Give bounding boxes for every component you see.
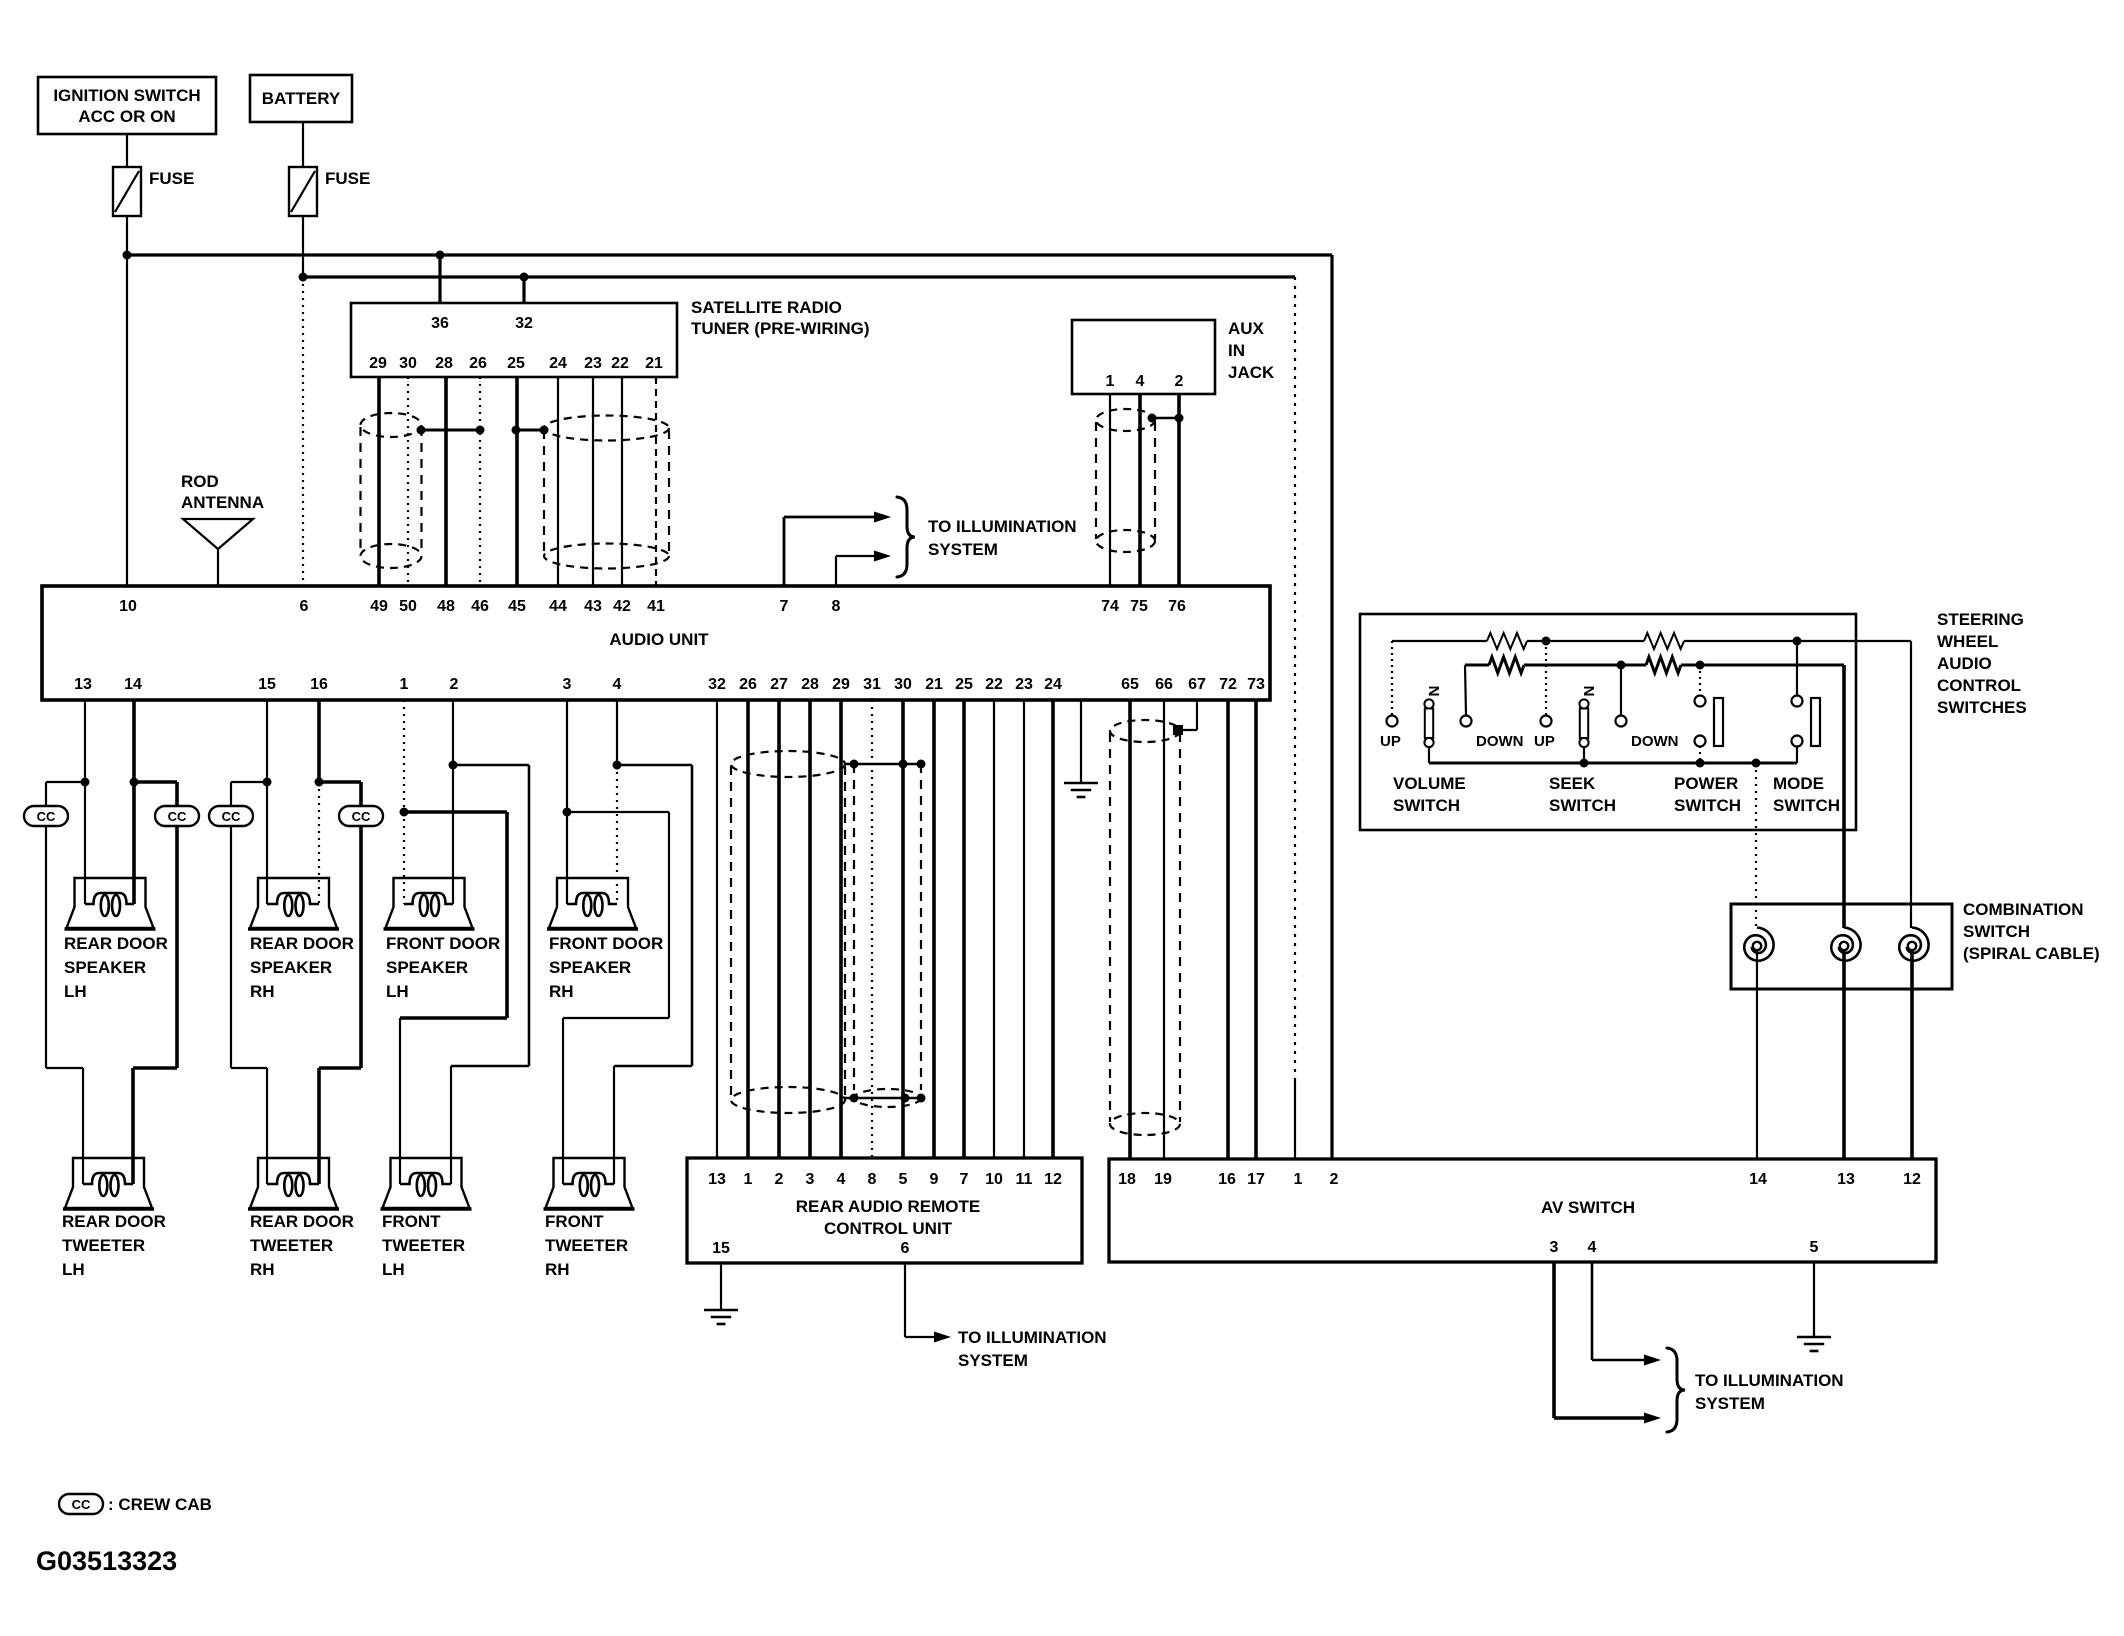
svg-text:1: 1 [400,676,409,693]
svg-text:FUSE: FUSE [149,169,194,188]
svg-text:ROD: ROD [181,472,219,491]
svg-text:15: 15 [712,1240,730,1257]
svg-text:MODE: MODE [1773,774,1824,793]
svg-text:24: 24 [1044,676,1062,693]
svg-text:SEEK: SEEK [1549,774,1596,793]
svg-text:CC: CC [168,809,187,824]
svg-text:RH: RH [545,1260,570,1279]
svg-text:AUDIO: AUDIO [1937,654,1992,673]
svg-text:48: 48 [437,598,455,615]
svg-text:CONTROL: CONTROL [1937,676,2021,695]
svg-text:FRONT DOOR: FRONT DOOR [386,934,500,953]
svg-text:SYSTEM: SYSTEM [958,1351,1028,1370]
svg-text:SPEAKER: SPEAKER [549,958,631,977]
svg-text:36: 36 [431,315,449,332]
svg-text:46: 46 [471,598,489,615]
svg-text:22: 22 [611,355,629,372]
svg-text:RH: RH [250,982,275,1001]
svg-text:44: 44 [549,598,567,615]
svg-text:27: 27 [770,676,788,693]
svg-text:17: 17 [1247,1171,1265,1188]
svg-text:22: 22 [985,676,1003,693]
svg-text:SPEAKER: SPEAKER [386,958,468,977]
svg-text:42: 42 [613,598,631,615]
svg-text:ANTENNA: ANTENNA [181,493,264,512]
svg-text:TWEETER: TWEETER [250,1236,333,1255]
svg-text:CC: CC [72,1497,91,1512]
svg-text:45: 45 [508,598,526,615]
svg-text:3: 3 [563,676,572,693]
svg-text:13: 13 [74,676,92,693]
svg-text:76: 76 [1168,598,1186,615]
svg-text:REAR DOOR: REAR DOOR [62,1212,166,1231]
svg-text:15: 15 [258,676,276,693]
svg-text:10: 10 [119,598,137,615]
svg-text:DOWN: DOWN [1631,733,1679,750]
svg-text:2: 2 [1175,373,1184,390]
svg-text:31: 31 [863,676,881,693]
svg-text:29: 29 [369,355,387,372]
svg-text:14: 14 [1749,1171,1767,1188]
svg-text:1: 1 [1294,1171,1303,1188]
svg-text:21: 21 [645,355,663,372]
svg-text:SATELLITE RADIO: SATELLITE RADIO [691,298,842,317]
svg-text:RH: RH [549,982,574,1001]
svg-text:1: 1 [1106,373,1115,390]
svg-text:11: 11 [1016,1171,1033,1188]
svg-text:BATTERY: BATTERY [262,89,341,108]
svg-text:43: 43 [584,598,602,615]
svg-text:CC: CC [37,809,56,824]
svg-text:32: 32 [708,676,726,693]
svg-text:13: 13 [1837,1171,1855,1188]
svg-text:18: 18 [1118,1171,1136,1188]
svg-text:: CREW CAB: : CREW CAB [108,1495,212,1514]
svg-text:29: 29 [832,676,850,693]
svg-text:TO ILLUMINATION: TO ILLUMINATION [958,1328,1107,1347]
svg-text:ACC OR ON: ACC OR ON [78,107,175,126]
svg-text:21: 21 [925,676,943,693]
svg-text:49: 49 [370,598,388,615]
svg-text:SWITCH: SWITCH [1963,922,2030,941]
svg-text:4: 4 [1588,1239,1597,1256]
svg-text:12: 12 [1044,1171,1062,1188]
svg-text:26: 26 [739,676,757,693]
svg-text:AUX: AUX [1228,319,1265,338]
svg-text:CC: CC [352,809,371,824]
svg-text:25: 25 [955,676,973,693]
svg-text:LH: LH [64,982,87,1001]
svg-text:65: 65 [1121,676,1139,693]
svg-text:4: 4 [1136,373,1145,390]
svg-text:SWITCH: SWITCH [1393,796,1460,815]
svg-text:STEERING: STEERING [1937,610,2024,629]
svg-text:2: 2 [1330,1171,1339,1188]
svg-text:LH: LH [386,982,409,1001]
svg-text:30: 30 [399,355,417,372]
svg-text:9: 9 [930,1171,939,1188]
svg-text:10: 10 [985,1171,1003,1188]
svg-text:28: 28 [435,355,453,372]
svg-text:6: 6 [901,1240,910,1257]
svg-text:5: 5 [899,1171,908,1188]
svg-text:7: 7 [960,1171,969,1188]
svg-text:24: 24 [549,355,567,372]
svg-text:4: 4 [613,676,622,693]
svg-text:TWEETER: TWEETER [62,1236,145,1255]
svg-text:TO ILLUMINATION: TO ILLUMINATION [1695,1371,1844,1390]
svg-text:74: 74 [1101,598,1119,615]
svg-text:16: 16 [1218,1171,1236,1188]
svg-text:FRONT: FRONT [382,1212,441,1231]
svg-text:25: 25 [507,355,525,372]
svg-text:30: 30 [894,676,912,693]
svg-text:16: 16 [310,676,328,693]
svg-text:TWEETER: TWEETER [545,1236,628,1255]
svg-text:3: 3 [806,1171,815,1188]
svg-text:FRONT DOOR: FRONT DOOR [549,934,663,953]
svg-text:SPEAKER: SPEAKER [64,958,146,977]
svg-text:SYSTEM: SYSTEM [928,540,998,559]
svg-text:2: 2 [450,676,459,693]
svg-text:WHEEL: WHEEL [1937,632,1998,651]
svg-text:N: N [1425,686,1442,697]
svg-text:72: 72 [1219,676,1237,693]
svg-text:SYSTEM: SYSTEM [1695,1394,1765,1413]
svg-text:73: 73 [1247,676,1265,693]
svg-text:SWITCH: SWITCH [1674,796,1741,815]
svg-text:TWEETER: TWEETER [382,1236,465,1255]
svg-text:G03513323: G03513323 [36,1546,177,1576]
svg-text:32: 32 [515,315,533,332]
svg-text:CC: CC [222,809,241,824]
svg-text:FRONT: FRONT [545,1212,604,1231]
svg-text:TO ILLUMINATION: TO ILLUMINATION [928,517,1077,536]
svg-text:COMBINATION: COMBINATION [1963,900,2084,919]
svg-text:23: 23 [584,355,602,372]
svg-text:5: 5 [1810,1239,1819,1256]
svg-text:28: 28 [801,676,819,693]
svg-text:4: 4 [837,1171,846,1188]
svg-text:REAR AUDIO REMOTE: REAR AUDIO REMOTE [796,1197,981,1216]
svg-text:SPEAKER: SPEAKER [250,958,332,977]
svg-text:UP: UP [1534,733,1555,750]
svg-text:26: 26 [469,355,487,372]
svg-text:2: 2 [775,1171,784,1188]
svg-text:12: 12 [1903,1171,1921,1188]
svg-text:DOWN: DOWN [1476,733,1524,750]
svg-text:N: N [1580,686,1597,697]
svg-text:LH: LH [382,1260,405,1279]
svg-text:AV SWITCH: AV SWITCH [1541,1198,1635,1217]
svg-text:19: 19 [1154,1171,1172,1188]
svg-text:(SPIRAL CABLE): (SPIRAL CABLE) [1963,944,2100,963]
svg-text:SWITCH: SWITCH [1549,796,1616,815]
svg-text:7: 7 [780,598,789,615]
svg-text:66: 66 [1155,676,1173,693]
svg-text:POWER: POWER [1674,774,1738,793]
svg-text:SWITCH: SWITCH [1773,796,1840,815]
svg-text:23: 23 [1015,676,1033,693]
svg-text:VOLUME: VOLUME [1393,774,1466,793]
svg-text:REAR DOOR: REAR DOOR [64,934,168,953]
svg-text:LH: LH [62,1260,85,1279]
svg-text:TUNER (PRE-WIRING): TUNER (PRE-WIRING) [691,319,869,338]
svg-text:UP: UP [1380,733,1401,750]
svg-text:1: 1 [744,1171,753,1188]
svg-text:REAR DOOR: REAR DOOR [250,934,354,953]
svg-text:50: 50 [399,598,417,615]
svg-text:REAR DOOR: REAR DOOR [250,1212,354,1231]
svg-text:75: 75 [1130,598,1148,615]
svg-text:IN: IN [1228,341,1245,360]
svg-text:FUSE: FUSE [325,169,370,188]
svg-text:IGNITION SWITCH: IGNITION SWITCH [53,86,200,105]
svg-text:14: 14 [124,676,142,693]
svg-text:6: 6 [300,598,309,615]
svg-text:67: 67 [1188,676,1206,693]
svg-text:RH: RH [250,1260,275,1279]
svg-text:3: 3 [1550,1239,1559,1256]
svg-text:SWITCHES: SWITCHES [1937,698,2027,717]
svg-text:8: 8 [832,598,841,615]
svg-text:JACK: JACK [1228,363,1275,382]
svg-text:13: 13 [708,1171,726,1188]
svg-text:CONTROL UNIT: CONTROL UNIT [824,1219,953,1238]
svg-text:41: 41 [647,598,665,615]
svg-text:AUDIO UNIT: AUDIO UNIT [609,630,709,649]
svg-text:8: 8 [868,1171,877,1188]
